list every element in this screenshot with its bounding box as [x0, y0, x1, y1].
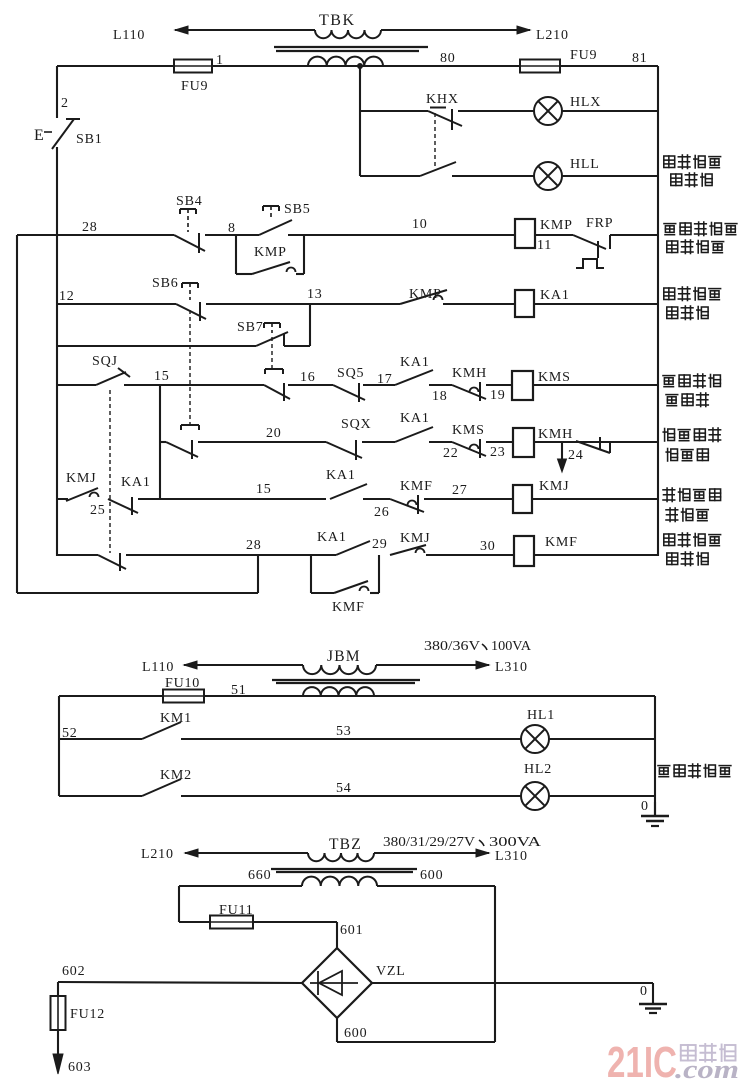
svg-text:L310: L310	[495, 660, 528, 675]
svg-text:KA1: KA1	[400, 411, 430, 426]
wire bottom return	[17, 592, 258, 594]
svg-text:81: 81	[632, 51, 648, 66]
wire secondary left	[179, 885, 302, 887]
node15 vertical	[159, 385, 161, 499]
svg-text:KMS: KMS	[452, 423, 485, 438]
wire row53 left	[59, 738, 142, 740]
svg-text:L310: L310	[495, 849, 528, 864]
svg-text:L110: L110	[113, 28, 145, 43]
wire row12 mid	[206, 303, 400, 305]
svg-text:KMJ: KMJ	[539, 479, 569, 494]
wire row12 left	[57, 303, 176, 305]
transformer JBM secondary	[303, 687, 374, 696]
svg-text:HLX: HLX	[570, 95, 601, 110]
wire KMJ coil to bus	[532, 498, 658, 500]
wire KA1 coil to bus	[534, 303, 658, 305]
wire to L210	[381, 29, 505, 31]
contact KHX upper (NC)	[428, 111, 462, 126]
coil KMH	[513, 428, 534, 457]
wire row20 c	[429, 441, 452, 443]
svg-text:SB4: SB4	[176, 194, 203, 209]
wire 603 arrow	[57, 1030, 59, 1048]
svg-text:15: 15	[256, 482, 272, 497]
wire after SB5	[288, 234, 515, 236]
svg-text:L210: L210	[141, 847, 174, 862]
svg-text:51: 51	[231, 683, 247, 698]
coil KMP	[515, 219, 535, 248]
svg-text:KMS: KMS	[538, 370, 571, 385]
wire HLL to bus	[562, 175, 658, 177]
svg-text:600: 600	[344, 1026, 367, 1041]
svg-text:L210: L210	[536, 28, 569, 43]
wire row602	[58, 982, 302, 983]
link SQJ dashed	[109, 390, 111, 553]
wire L110 arrow mid	[184, 664, 210, 666]
wire HLL row left	[360, 175, 420, 177]
svg-text:11: 11	[537, 238, 552, 253]
svg-text:602: 602	[62, 964, 85, 979]
transformer TBK primary winding	[315, 30, 381, 38]
wire row25 a	[138, 498, 326, 500]
svg-text:53: 53	[336, 724, 352, 739]
wire L210 arrow	[185, 852, 222, 854]
svg-text:8: 8	[228, 221, 236, 236]
wire left bus mid	[56, 235, 58, 556]
wire row28b b	[426, 554, 514, 556]
svg-text:28: 28	[82, 220, 98, 235]
wire mid left bus	[58, 696, 60, 796]
contact SB7-linked (NC)	[265, 368, 283, 370]
wire to KMJ coil	[424, 498, 513, 500]
svg-text:KMP: KMP	[254, 245, 287, 260]
label beam down contactor	[663, 429, 674, 442]
link SB7 dashed	[271, 337, 273, 368]
wire mid right bus	[654, 696, 656, 816]
svg-text:SB6: SB6	[152, 276, 179, 291]
wire row20 a	[198, 441, 326, 443]
contact KMF aux (NO)	[334, 581, 368, 593]
svg-text:25: 25	[90, 503, 106, 518]
junction center tap	[357, 63, 363, 69]
junction to return	[257, 555, 259, 593]
svg-text:KMF: KMF	[400, 479, 433, 494]
node L210	[505, 29, 530, 31]
contact SQJ-linked (NC)	[57, 554, 98, 556]
svg-text:18: 18	[432, 389, 448, 404]
wire FRP to bus	[609, 235, 611, 249]
wire coil to FRP	[535, 234, 573, 236]
coil KMS	[512, 371, 533, 400]
node L310 mid	[463, 664, 489, 666]
contact FRP thermal overload	[573, 235, 606, 249]
wire fu12 drop	[57, 982, 59, 996]
wire row15 a	[124, 384, 264, 386]
ground bottom	[652, 983, 654, 1004]
svg-text:SQJ: SQJ	[92, 354, 118, 369]
wire transformer tap down	[359, 66, 361, 176]
svg-text:SQ5: SQ5	[337, 366, 364, 381]
svg-text:FU9: FU9	[181, 79, 208, 94]
svg-text:13: 13	[307, 287, 323, 302]
svg-text:JBM: JBM	[327, 648, 361, 665]
svg-text:54: 54	[336, 781, 352, 796]
wire row54 mid	[181, 795, 521, 797]
svg-text:TBZ: TBZ	[329, 836, 362, 853]
svg-text:601: 601	[340, 923, 363, 938]
arrow 24 mechanical	[561, 442, 563, 466]
wire 601 down	[336, 922, 338, 948]
svg-text:21IC: 21IC	[607, 1038, 677, 1087]
wire rectifier to ground	[372, 982, 653, 984]
wire left bus below SB1	[56, 147, 58, 235]
svg-text:2: 2	[61, 96, 69, 111]
fuse FU11	[210, 916, 253, 929]
wire row15 b	[288, 384, 333, 386]
contact KHX lower (NO)	[420, 162, 456, 176]
svg-text:0: 0	[640, 984, 648, 999]
svg-text:KMJ: KMJ	[66, 471, 96, 486]
svg-text:0: 0	[641, 799, 649, 814]
svg-text:SB7: SB7	[237, 320, 264, 335]
lamp HL2	[521, 782, 549, 810]
contact SB6-linked (NC)	[181, 424, 199, 426]
wire row54 left	[59, 795, 142, 797]
link KHX dashed	[434, 113, 436, 168]
wire HLL row mid	[452, 175, 534, 177]
wire to KMS coil	[486, 384, 512, 386]
contact brake (NC)	[576, 441, 610, 453]
wire left bus2	[16, 235, 18, 593]
svg-text:300VA: 300VA	[489, 835, 542, 850]
wire fu11 row	[179, 921, 210, 923]
wire to L310 bottom	[374, 852, 463, 854]
wire HLX row left	[360, 110, 428, 112]
wire KMP parallel branch	[235, 235, 237, 274]
svg-text:10: 10	[412, 217, 428, 232]
svg-text:20: 20	[266, 426, 282, 441]
wire top primary line	[215, 29, 315, 31]
svg-text:FU11: FU11	[219, 903, 254, 918]
svg-text:22: 22	[443, 446, 459, 461]
svg-text:380/36V: 380/36V	[424, 639, 480, 654]
wire main bus y66	[57, 65, 174, 67]
pushbutton SB1 emergency stop	[52, 119, 74, 149]
lamp HLL	[534, 162, 562, 190]
wire row15 left	[57, 384, 96, 386]
svg-text:KMP: KMP	[409, 287, 442, 302]
wire row53 mid	[181, 738, 521, 740]
svg-text:HL2: HL2	[524, 762, 552, 777]
wire KMF parallel branch	[310, 555, 312, 593]
svg-text:KMF: KMF	[332, 600, 365, 615]
label worktable motor contactor	[664, 224, 676, 235]
svg-text:KA1: KA1	[317, 530, 347, 545]
svg-text:TBK: TBK	[319, 12, 356, 29]
wire to KMH coil	[486, 441, 513, 443]
svg-text:12: 12	[59, 289, 75, 304]
svg-text:KA1: KA1	[121, 475, 151, 490]
rectifier diode	[310, 982, 358, 984]
svg-text:26: 26	[374, 505, 390, 520]
transformer TBZ core	[271, 868, 417, 870]
fuse FU10	[163, 690, 204, 703]
svg-text:FRP: FRP	[586, 216, 613, 231]
wire row28b a	[126, 554, 336, 556]
svg-text:30: 30	[480, 539, 496, 554]
svg-text:SB5: SB5	[284, 202, 311, 217]
ground mid	[654, 802, 656, 816]
wire L110 arrow	[175, 29, 315, 31]
svg-text:80: 80	[440, 51, 456, 66]
pushbutton SB4 (NC)	[180, 208, 196, 210]
wire KMH coil right	[534, 441, 658, 443]
coil KMJ	[513, 485, 532, 513]
svg-text:24: 24	[568, 448, 584, 463]
svg-text:1: 1	[216, 53, 224, 68]
svg-text:L110: L110	[142, 660, 174, 675]
wire to L310 mid	[376, 664, 463, 666]
contact SQJ limit switch	[96, 372, 126, 385]
svg-text:FU9: FU9	[570, 48, 597, 63]
wire row54 right	[549, 795, 655, 797]
svg-text:KHX: KHX	[426, 92, 459, 107]
svg-text:KMJ: KMJ	[400, 531, 430, 546]
svg-text:660: 660	[248, 868, 271, 883]
label beam raise relay	[664, 288, 675, 300]
pushbutton SB6 (NC)	[182, 282, 198, 284]
label lubrication indicator	[664, 156, 675, 168]
wire KMS coil to bus	[533, 384, 658, 386]
label beam up contactor	[663, 376, 675, 387]
transformer JBM core	[272, 679, 420, 681]
transformer TBZ secondary	[302, 877, 377, 886]
wire KMF coil to bus	[534, 554, 658, 556]
wire secondary right	[377, 885, 495, 887]
label beam clamp contactor	[663, 488, 675, 502]
svg-text:KA1: KA1	[400, 355, 430, 370]
wire right bus	[657, 66, 659, 556]
fuse FU9 right	[520, 60, 560, 73]
svg-text:KA1: KA1	[326, 468, 356, 483]
fuse FU12	[51, 996, 66, 1030]
svg-text:16: 16	[300, 370, 316, 385]
lamp HL1	[521, 725, 549, 753]
svg-text:E: E	[34, 127, 45, 144]
contact KMP no	[400, 290, 447, 304]
pushbutton SB5 (NO)	[263, 205, 279, 207]
svg-text:SB1: SB1	[76, 132, 103, 147]
svg-text:KMH: KMH	[538, 427, 573, 442]
wire HLX row mid	[458, 110, 534, 112]
coil KMF	[514, 536, 534, 566]
wire row15 d	[429, 384, 452, 386]
wire to KA1 coil	[443, 303, 515, 305]
wire SB7 branch	[57, 345, 256, 347]
transformer JBM primary	[303, 665, 376, 674]
svg-text:27: 27	[452, 483, 468, 498]
link SB6 dashed	[189, 310, 191, 424]
label local lighting lamp	[658, 766, 670, 777]
svg-text:FU10: FU10	[165, 676, 200, 691]
wire row28 left segment	[17, 234, 174, 236]
wire row28 mid	[205, 234, 259, 236]
svg-text:28: 28	[246, 538, 262, 553]
wire left bus upper	[56, 66, 58, 118]
svg-text:FU12: FU12	[70, 1007, 105, 1022]
svg-text:KMH: KMH	[452, 366, 487, 381]
wire bus51	[59, 695, 163, 697]
svg-text:15: 15	[154, 369, 170, 384]
wire row25 b	[363, 498, 390, 500]
label beam release contactor	[664, 534, 675, 546]
svg-text:23: 23	[490, 445, 506, 460]
pushbutton SB7 (NO)	[264, 322, 280, 324]
svg-text:KA1: KA1	[540, 288, 570, 303]
svg-text:100VA: 100VA	[491, 639, 532, 654]
svg-text:KMF: KMF	[545, 535, 578, 550]
svg-text:29: 29	[372, 537, 388, 552]
svg-text:KMP: KMP	[540, 218, 573, 233]
contact KMP aux (NO)	[252, 262, 290, 274]
wire rectifier bottom	[336, 1018, 338, 1042]
wire SB7 to row13	[284, 345, 310, 347]
fuse FU9 left	[174, 60, 212, 73]
lamp HLX	[534, 97, 562, 125]
wire HLX to bus	[562, 110, 658, 112]
transformer TBK secondary winding	[308, 57, 383, 66]
coil KA1	[515, 290, 534, 317]
svg-text:SQX: SQX	[341, 417, 371, 432]
svg-text:600: 600	[420, 868, 443, 883]
svg-text:603: 603	[68, 1060, 91, 1075]
node L310 bottom	[463, 852, 489, 854]
transformer TBK core	[274, 46, 428, 48]
svg-text:380/31/29/27V: 380/31/29/27V	[383, 835, 475, 850]
svg-text:VZL: VZL	[376, 964, 406, 979]
transformer TBZ primary	[308, 853, 374, 861]
svg-text:HLL: HLL	[570, 157, 600, 172]
svg-text:19: 19	[490, 388, 506, 403]
rectifier VZL diamond	[302, 948, 372, 1018]
svg-text:HL1: HL1	[527, 708, 555, 723]
wire row53 right	[549, 738, 655, 740]
wire row20 b	[362, 441, 395, 443]
wire row15 c	[363, 384, 395, 386]
watermark dianziwang	[681, 1045, 696, 1061]
